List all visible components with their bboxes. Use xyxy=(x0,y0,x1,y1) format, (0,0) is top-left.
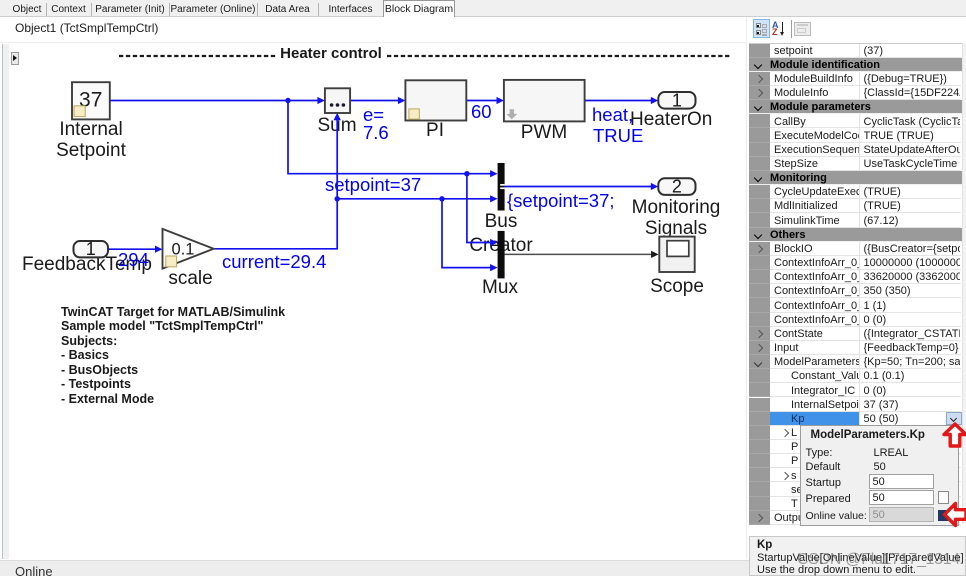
grid row: StepSize xyxy=(749,157,770,171)
grid row: Output xyxy=(749,511,770,525)
label setpoint=37 xyxy=(325,175,421,195)
wire: Mux to Scope (gray) xyxy=(505,253,652,255)
grid row: ModuleInfo xyxy=(749,86,770,100)
grid row: Others xyxy=(749,228,962,242)
grid row: ContextInfoArr_0_T xyxy=(749,256,770,270)
grid row: se xyxy=(749,482,770,496)
testpoint marker on scale xyxy=(166,256,177,267)
label e= 7.6 xyxy=(363,106,389,142)
label {setpoint=37; xyxy=(507,191,615,211)
red up arrow at Kp dropdown xyxy=(944,424,966,446)
label Bus Creator xyxy=(401,211,601,233)
grid row: T xyxy=(749,497,770,511)
testpoint marker on constant xyxy=(74,106,85,117)
right property panel xyxy=(749,17,966,559)
label heat, xyxy=(592,105,633,125)
header row: Object1 (TctSmplTempCtrl) xyxy=(0,17,747,43)
red left arrow at Online value xyxy=(945,504,966,526)
junction xyxy=(439,196,444,201)
dashed annotation line right of Heater control xyxy=(387,55,731,57)
label current=29.4 xyxy=(222,252,326,272)
annotation: Heater control title xyxy=(231,43,431,65)
small expand button xyxy=(11,52,19,65)
toolbar: alphabetical sort icon xyxy=(772,21,780,29)
grid row: BlockIO xyxy=(749,242,770,256)
watermark xyxy=(797,551,960,569)
block: Scope xyxy=(659,237,694,272)
block: Mux bar xyxy=(498,231,505,279)
wire: setpoint branch down to Bus Creator in1 xyxy=(288,101,491,174)
junction xyxy=(285,98,290,103)
junction xyxy=(464,171,469,176)
wire: scale out up to Sum bottom xyxy=(214,119,338,249)
grid row: ExecutionSequence xyxy=(749,143,770,157)
external-mode download arrow icon in PWM xyxy=(506,109,517,119)
grid row: SimulinkTime xyxy=(749,213,770,227)
grid row: CallBy xyxy=(749,114,770,128)
grid row: ExecuteModelCode xyxy=(749,128,770,142)
status bar xyxy=(0,560,749,577)
grid row: P xyxy=(749,454,770,468)
left collapsed panel strip xyxy=(2,44,9,559)
svg-text:37: 37 xyxy=(79,89,102,112)
label Sum xyxy=(237,115,437,137)
block: PI xyxy=(405,80,466,120)
label TRUE xyxy=(593,126,643,146)
grid row: ContextInfoArr_0_T xyxy=(749,313,770,327)
label Mux xyxy=(400,277,600,299)
description annotation text xyxy=(61,305,285,407)
grid row: Module parameters xyxy=(749,100,962,114)
grid row: Kp xyxy=(749,412,770,426)
grid row: ContState xyxy=(749,327,770,341)
svg-text:1: 1 xyxy=(672,90,682,110)
label Monitoring Signals xyxy=(576,197,776,240)
block: constant Internal Setpoint xyxy=(72,82,110,119)
label PWM xyxy=(444,122,644,144)
outport 1 HeaterOn xyxy=(658,92,695,109)
label 60 xyxy=(471,102,492,122)
label 294 xyxy=(118,250,149,270)
svg-text:2: 2 xyxy=(672,177,682,197)
dashed annotation line left of Heater control xyxy=(119,55,276,57)
wire: FeedbackTemp to scale xyxy=(108,248,156,250)
grid row: s xyxy=(749,468,770,482)
outport 2 Monitoring Signals xyxy=(658,178,695,195)
inport 1 FeedbackTemp xyxy=(74,241,109,257)
wire: branch down to Mux in1 xyxy=(467,174,491,243)
junction xyxy=(335,196,340,201)
grid row: setpoint xyxy=(749,44,770,58)
popup: ModelParameters.Kp flyout xyxy=(800,425,959,526)
block: Sum xyxy=(325,88,350,113)
block: gain scale triangle xyxy=(163,229,214,269)
grid row: Integrator_IC xyxy=(749,383,770,397)
wire: Sum to PI xyxy=(350,100,399,102)
toolbar separator xyxy=(791,20,792,38)
testpoint marker on PI xyxy=(409,109,419,119)
grid row: ContextInfoArr_0_T xyxy=(749,298,770,312)
label scale xyxy=(91,268,291,290)
label PI xyxy=(335,120,535,142)
label Internal Setpoint xyxy=(0,119,191,162)
property grid xyxy=(749,43,966,44)
wire: Bus Creator to Monitoring Signals xyxy=(505,186,652,188)
grid right margin strip xyxy=(962,43,966,525)
grid row: CycleUpdateExecut xyxy=(749,185,770,199)
grid row: L xyxy=(749,426,770,440)
toolbar: categorized icon (selected) xyxy=(753,19,770,38)
grid row: ContextInfoArr_0_T xyxy=(749,270,770,284)
toolbar: property pages icon (disabled) xyxy=(794,22,811,37)
grid row: Constant_Value xyxy=(749,369,770,383)
wire: branch down to Mux in2 xyxy=(442,199,491,268)
grid row: InternalSetpoint xyxy=(749,398,770,412)
grid row: MdlInitialized xyxy=(749,199,770,213)
help box with Kp description xyxy=(749,536,966,576)
block: PWM xyxy=(504,80,585,122)
label HeaterOn xyxy=(630,109,712,131)
label FeedbackTemp xyxy=(22,254,152,276)
pane divider xyxy=(746,17,747,559)
wire: Internal Setpoint to Sum xyxy=(110,100,318,102)
wire: PI to PWM xyxy=(466,100,497,102)
label Scope xyxy=(577,276,777,298)
grid row: P xyxy=(749,440,770,454)
grid row: ContextInfoArr_0_T xyxy=(749,284,770,298)
label Creator xyxy=(401,235,601,257)
wire: PWM to HeaterOn xyxy=(585,100,652,102)
grid row: ModelParameters xyxy=(749,355,770,369)
grid row: Monitoring xyxy=(749,171,962,185)
grid row: Module identification xyxy=(749,58,962,72)
block: Bus Creator bar xyxy=(498,163,505,211)
tab bar xyxy=(0,0,966,17)
svg-text:0.1: 0.1 xyxy=(172,241,195,259)
grid row: ModuleBuildInfo xyxy=(749,72,770,86)
wire: current branch to Bus Creator in2 xyxy=(337,198,491,200)
grid row: Input xyxy=(749,341,770,355)
